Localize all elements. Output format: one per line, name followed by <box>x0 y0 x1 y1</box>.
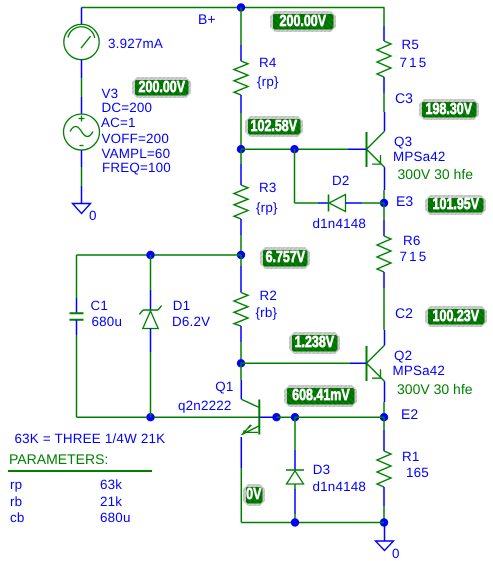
transistor Q2 MPSa42 <box>350 345 385 381</box>
ground net 0 (bottom right) <box>392 547 400 560</box>
wire: C1 top branch <box>76 255 78 313</box>
wire: D3 bottom pin <box>294 484 296 523</box>
wire: R3 to 6.757V node <box>240 219 242 255</box>
designator D2 <box>332 174 350 187</box>
wire: middle rail to R4 <box>240 8 242 62</box>
designator C1 <box>91 299 109 312</box>
parameter cb value 680u <box>100 511 131 524</box>
value d1n4148 of D2 <box>313 217 367 230</box>
wire: D3 top pin <box>294 417 296 470</box>
wire: 608.41mV rail (C1/D1 bottom to E2) <box>77 416 260 418</box>
wire: 0V bottom rail <box>241 522 384 524</box>
designator R1 <box>402 450 420 463</box>
wire: R5 to Q3 collector (node C3) <box>383 77 386 131</box>
node: junction dot D2 branch on Q3 base wire <box>290 145 298 153</box>
wire: base node to Q3 base <box>241 148 367 150</box>
node: junction dot at B+ / middle rail <box>237 3 245 11</box>
value AC=1 <box>101 116 136 129</box>
net label E2 <box>401 408 418 421</box>
parameter rp value 63k <box>100 478 122 491</box>
bias readout 608.41mV <box>284 385 357 407</box>
designator D1 <box>173 299 191 312</box>
bias readout 6.757V <box>260 247 310 269</box>
resistor R5 715 <box>377 41 391 77</box>
value 715 of R5 <box>400 56 429 69</box>
transistor Q3 MPSa42 <box>348 131 385 167</box>
node: junction dot E3 <box>380 199 388 207</box>
wire: V3 to ground <box>81 150 83 204</box>
node: junction dot D3 top <box>291 413 299 421</box>
bias readout 100.23V at C2 <box>425 306 487 327</box>
designator R2 <box>260 289 278 302</box>
voltage source V3 (sine) <box>64 114 100 150</box>
ammeter current probe (3.927mA) <box>64 24 99 59</box>
designator Q1 <box>215 380 233 393</box>
net label E3 <box>396 195 413 208</box>
node: junction dot Q1 base pin end <box>272 413 280 421</box>
wire: top rail to R5 <box>383 8 385 42</box>
transistor Q1 q2n2222 <box>241 399 276 435</box>
diode D3 d1n4148 <box>286 470 304 484</box>
bias readout 1.238V <box>289 332 340 354</box>
note 300V 30 hfe (Q2) <box>397 383 473 396</box>
wire: D1 top pin <box>150 255 152 310</box>
node: junction dot on 608mV rail (D1 bottom) <box>146 413 154 421</box>
value 680u of C1 <box>92 315 123 328</box>
note 63K = THREE 1/4W 21K <box>15 432 166 445</box>
wire: D2 branch vertical <box>294 149 296 203</box>
parameter rb <box>10 495 22 508</box>
wire: Q3 emitter to E3 <box>383 167 386 203</box>
resistor R4 {rp} <box>234 61 248 95</box>
parameter rp <box>10 478 22 491</box>
wire: D2 anode-side wire <box>295 202 329 204</box>
wire: E2 to R1 <box>383 417 385 451</box>
resistor R2 {rb} <box>234 293 248 327</box>
node: junction dot at R1 bottom / ground <box>380 518 388 526</box>
wire: Q2 emitter to E2 <box>383 381 386 417</box>
value FREQ=100 <box>102 161 171 174</box>
node: junction dot R2/Q2-base/Q1-collector (1.238V) <box>237 359 245 367</box>
value 165 of R1 <box>406 466 429 479</box>
wire: D3 node to E2 <box>295 416 384 418</box>
wire: R1 to bottom node <box>383 487 385 523</box>
wire: 6.757V node to R2 <box>240 255 242 293</box>
designator R6 <box>403 234 421 247</box>
value VOFF=200 <box>102 132 169 145</box>
wire: node to Q1 collector <box>240 363 242 399</box>
resistor R3 {rp} <box>234 185 248 219</box>
net label C3 <box>395 92 413 105</box>
bias readout 102.58V <box>245 116 303 137</box>
bias readout 0V <box>243 484 265 506</box>
value {rp} of R3 <box>256 201 278 214</box>
bias readout 101.95V at E3 <box>425 195 486 215</box>
value label 3.927mA (ammeter) <box>108 37 163 50</box>
value VAMPL=60 <box>102 147 171 160</box>
capacitor C1 680u <box>70 313 84 320</box>
resistor R6 715 <box>377 236 391 272</box>
value 715 of R6 <box>400 250 429 263</box>
wire: R6 to Q2 collector (node C2) <box>383 272 386 345</box>
wire: C1 bottom branch <box>76 320 78 417</box>
parameter rb value 21k <box>100 495 122 508</box>
wire: Q1 emitter down <box>240 437 242 523</box>
value d1n4148 of D3 <box>313 480 367 493</box>
wire: ammeter top pin stub <box>81 8 83 25</box>
designator R4 <box>259 56 277 69</box>
designator V3 <box>102 87 119 100</box>
wire: R2 to Q2-base node <box>240 326 242 363</box>
ground 0 (below V3) <box>73 204 91 214</box>
net label C2 <box>395 307 413 320</box>
net label B+ <box>198 13 216 26</box>
ground net 0 (left) <box>89 209 97 222</box>
node: junction dot D1 top <box>146 251 154 259</box>
wire: D2 to E3 <box>346 202 385 204</box>
diode D2 d1n4148 <box>329 195 346 212</box>
wire: D1 bottom pin <box>150 329 152 418</box>
wire: 1.238V node to Q2 base <box>241 362 367 364</box>
bias readout 198.30V at C3 <box>419 99 479 120</box>
wire: base node to R3 <box>240 150 242 185</box>
node: junction dot D3 bottom <box>291 518 299 526</box>
value MPSa42 of Q2 <box>393 364 446 377</box>
zener diode D1 D6.2V <box>139 306 161 329</box>
bias readout 200.00V at B+ <box>270 11 336 32</box>
node: junction dot R3/R2/C1-D1 (6.757V) <box>237 251 245 259</box>
underline of PARAMETERS heading <box>8 470 152 472</box>
designator R3 <box>259 181 277 194</box>
ground 0 (bottom right) <box>376 541 394 551</box>
wire: Q1 base pin to D3 node <box>277 416 296 418</box>
wire: R4 to base node <box>240 95 242 148</box>
node: junction dot R4/R3/Q3-base <box>237 145 245 153</box>
node: junction dot E2 <box>380 413 388 421</box>
resistor R1 165 <box>377 451 391 487</box>
value DC=200 <box>102 101 153 114</box>
bias readout 200.00V at V3 <box>132 77 191 98</box>
value {rb} of R2 <box>256 306 278 319</box>
value MPSa42 of Q3 <box>393 150 446 163</box>
wire: ground stub (bottom right) <box>384 523 386 542</box>
note 300V 30 hfe (Q3) <box>398 168 474 181</box>
parameter cb <box>10 511 25 524</box>
value D6.2V of D1 <box>172 315 210 328</box>
designator R5 <box>402 38 420 51</box>
heading PARAMETERS: <box>9 453 108 466</box>
designator Q2 <box>394 349 412 362</box>
wire: ammeter to V3 <box>81 60 83 114</box>
wire: 6.757V top rail of C1/D1 block <box>77 254 242 256</box>
wire: B+ top rail <box>82 7 385 9</box>
designator D3 <box>313 463 331 476</box>
value q2n2222 of Q1 <box>178 399 232 412</box>
designator Q3 <box>394 135 412 148</box>
wire: E3 to R6 <box>383 203 385 236</box>
value {rp} of R4 <box>257 75 279 88</box>
